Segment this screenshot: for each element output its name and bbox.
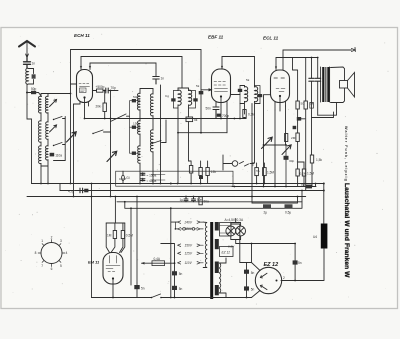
coil L3b: [46, 122, 48, 139]
svg-text:8: 8: [35, 251, 37, 255]
switch frame box: [54, 117, 66, 161]
svg-text:50: 50: [301, 102, 305, 106]
plate cap 5n lower: [244, 286, 249, 290]
osc padder lever: [111, 114, 130, 122]
electrolytic feed wires: [252, 197, 298, 204]
dial lamp 1: [226, 226, 236, 236]
heater winding label box EZ12: [220, 247, 234, 257]
svg-text:240V: 240V: [184, 220, 193, 224]
svg-text:220V: 220V: [184, 227, 193, 231]
svg-text:2M: 2M: [291, 136, 296, 140]
cap 4,7u on bus: [80, 188, 83, 193]
IF1 trim cap right: [193, 98, 197, 101]
osc switch S4: [152, 141, 166, 144]
svg-text:Gl: Gl: [126, 176, 129, 180]
svg-text:Cg: Cg: [165, 94, 169, 98]
volume pot arrow 2: [282, 145, 291, 155]
tube V4 EM11: [103, 253, 123, 285]
output transformer core: [322, 67, 324, 102]
bottom heater bus: [175, 297, 252, 299]
svg-text:50n: 50n: [197, 198, 203, 202]
cap 8u electrolytic: [306, 185, 312, 189]
bus y196.5: [27, 196, 306, 198]
resistor 0,5M grid: [93, 90, 97, 92]
svg-text:5n: 5n: [179, 272, 183, 276]
electrolytic 0,5u: [283, 202, 294, 204]
svg-text:1,5M: 1,5M: [267, 171, 274, 175]
svg-text:1: 1: [41, 239, 43, 243]
resistor 0,1M: [243, 110, 246, 118]
svg-text:1,5k: 1,5k: [316, 158, 322, 162]
trimmer 5k box: [186, 117, 193, 122]
resistor 0,5M: [121, 231, 124, 239]
AVC return line: [178, 119, 227, 133]
svg-text:50a: 50a: [204, 199, 210, 203]
selector feed wires: [171, 208, 178, 297]
bus y208.3: [125, 191, 302, 209]
wire from selector to fuse: [161, 244, 175, 272]
bus y183.5: [32, 183, 324, 185]
cap 5n selector upper: [172, 271, 177, 275]
svg-text:2: 2: [51, 236, 53, 240]
IF1 primary coil: [178, 90, 181, 105]
svg-text:700p: 700p: [222, 114, 229, 118]
speaker cone: [340, 81, 348, 89]
svg-text:A=4,5V, 0,3A: A=4,5V, 0,3A: [225, 218, 244, 222]
tube V5 EZ12: [255, 267, 281, 293]
capacitor pair at transformer: [309, 78, 314, 81]
lamp wires: [231, 219, 241, 244]
IF2 trim cap left: [238, 89, 242, 92]
osc switch S3: [93, 130, 111, 134]
coil L3a: [46, 96, 48, 113]
svg-text:70p: 70p: [111, 86, 117, 90]
IF2 trim cap right: [258, 94, 262, 97]
svg-text:Lauschatal W und Franken W: Lauschatal W und Franken W: [343, 183, 350, 278]
osc coil L4a: [138, 93, 140, 110]
tube V3 ECL11: [271, 70, 290, 103]
osc coil L5b tall: [150, 130, 153, 152]
node antenna junction: [26, 92, 28, 94]
trimmer cap 110a: [50, 153, 55, 157]
svg-text:4: 4: [66, 251, 68, 255]
svg-text:5k: 5k: [196, 84, 200, 88]
resistor Ra: [296, 101, 299, 109]
TA jack: [232, 161, 238, 167]
resistor 50a: [199, 197, 202, 205]
svg-text:5n: 5n: [298, 261, 302, 265]
svg-text:≈ 150a: ≈ 150a: [147, 173, 157, 177]
svg-text:3: 3: [60, 239, 62, 243]
svg-text:0,1M: 0,1M: [119, 177, 126, 181]
svg-text:1k: 1k: [310, 102, 314, 106]
bus ECL grid from IF2: [276, 58, 318, 70]
wire antenna down to bus: [27, 93, 32, 184]
winding blocks: [215, 222, 219, 231]
trimmer arrow L3a: [50, 99, 57, 106]
svg-text:5: 5: [60, 264, 62, 268]
svg-text:8μ: 8μ: [301, 182, 305, 186]
svg-text:4,7μ: 4,7μ: [68, 189, 74, 193]
svg-text:ECL 11: ECL 11: [263, 36, 279, 41]
svg-text:≈ 450a: ≈ 450a: [147, 179, 157, 183]
resistor Rd: [296, 169, 299, 176]
glow lamp box: [116, 171, 233, 186]
AVC grid cap box: [199, 91, 204, 94]
cap 1u: [184, 197, 188, 202]
capacitor 1n bus tap: [153, 77, 159, 85]
bus EBF plate to IF2: [222, 57, 255, 86]
V4 cathode wire to bus: [92, 280, 145, 298]
top bus C to 1n cap: [90, 63, 156, 77]
svg-text:12k: 12k: [211, 170, 217, 174]
resistor 1M: [113, 231, 116, 239]
coil L2b: [38, 121, 41, 142]
svg-text:5n: 5n: [251, 271, 255, 275]
IF2 secondary coil: [255, 87, 258, 102]
svg-text:150p: 150p: [133, 122, 140, 126]
svg-text:+500p: +500p: [96, 85, 105, 89]
EBF grid stub: [201, 89, 212, 91]
dropper resistor U4 dark bar: [321, 224, 328, 249]
IF1 secondary coil: [189, 90, 192, 105]
svg-text:1n: 1n: [32, 62, 36, 66]
svg-text:150V: 150V: [185, 243, 193, 247]
svg-text:1,5M: 1,5M: [307, 172, 314, 176]
tube V1 ECH11: [77, 70, 93, 103]
svg-text:0,4A: 0,4A: [154, 257, 161, 261]
svg-text:5k: 5k: [194, 118, 198, 122]
wire verticals to bus: [71, 84, 74, 197]
IF1 trim cap left: [171, 98, 175, 101]
mains switch: [145, 294, 175, 298]
svg-text:30p: 30p: [289, 159, 294, 163]
voltage selector contacts: [178, 221, 204, 264]
svg-text:50p: 50p: [31, 87, 37, 91]
EM11 top wires: [106, 197, 131, 286]
bus ECL plate to speaker terminal: [283, 48, 355, 71]
resistor Re 1,5M: [302, 169, 305, 176]
V1 pins: [81, 57, 90, 70]
V5 pin wires: [247, 244, 261, 298]
band switch S2: [54, 143, 66, 146]
speaker feed wires: [312, 58, 318, 118]
svg-text:F: F: [252, 164, 254, 168]
wire x137 from bus: [136, 197, 138, 284]
V2 pins: [216, 95, 240, 133]
coupling cap dark right: [297, 117, 301, 121]
IF2 primary coil: [245, 87, 248, 102]
capacitor 70p: [103, 90, 118, 92]
wire grid bus y118.5: [85, 118, 247, 120]
V3 pins: [275, 97, 286, 111]
svg-text:6: 6: [51, 267, 53, 271]
svg-text:5n: 5n: [141, 286, 145, 290]
bus y201.8: [117, 201, 302, 203]
svg-text:5n: 5n: [179, 287, 183, 291]
cap dark on resistor lead: [199, 176, 203, 179]
svg-text:1n: 1n: [161, 77, 165, 81]
wires IF2 secondary down: [252, 104, 255, 197]
wires under V3: [264, 106, 286, 187]
osc coil L4b: [138, 121, 140, 135]
svg-text:0,5M: 0,5M: [126, 234, 133, 238]
svg-text:7: 7: [41, 264, 43, 268]
wire y186.5: [232, 186, 316, 188]
trimmer cap on L1: [32, 74, 36, 78]
resistor Rb: [304, 101, 307, 109]
cap 5n HT: [293, 260, 298, 264]
resistor 20k: [103, 103, 106, 112]
svg-text:Walter Funk, Leipzig: Walter Funk, Leipzig: [344, 126, 348, 182]
svg-text:EM 11: EM 11: [88, 260, 100, 265]
cap 5n selector lower: [172, 286, 177, 290]
bus y190.5: [60, 190, 324, 192]
resistor 1,5M mid: [263, 168, 267, 176]
svg-text:2: 2: [283, 276, 285, 280]
tube V2 EBF11: [212, 69, 231, 103]
cap 5n at EM11: [134, 285, 139, 289]
cap 30p under V3: [284, 156, 289, 160]
speaker body: [331, 67, 345, 103]
capacitor 50p series: [27, 93, 42, 97]
osc coil L5a tall: [150, 94, 153, 116]
plate cap 5n upper: [244, 270, 249, 274]
band switch S1: [54, 117, 66, 120]
svg-text:1μ: 1μ: [180, 198, 184, 202]
resistor bank above bus: [189, 166, 192, 174]
tuning capacitor arrow C-tune2: [107, 151, 117, 161]
resistor 1M right: [310, 155, 313, 163]
osc coil L4c: [138, 146, 140, 163]
svg-text:50n: 50n: [206, 107, 212, 111]
feedback loop wires: [312, 103, 337, 187]
resistor mid: [285, 134, 288, 142]
coil L3c: [46, 146, 48, 160]
svg-text:5n: 5n: [251, 287, 255, 291]
cap pair dark: [293, 126, 297, 129]
padder caps left of L4: [132, 99, 136, 102]
svg-text:50p: 50p: [133, 95, 138, 99]
svg-text:8,5V: 8,5V: [228, 245, 235, 249]
top bus A (AVC): [71, 50, 202, 92]
svg-text:ECH 11: ECH 11: [74, 33, 90, 38]
scan speckle noise: [5, 34, 388, 305]
svg-text:5k: 5k: [246, 78, 250, 82]
fuse F box: [255, 168, 259, 176]
coil L2c: [39, 146, 41, 164]
antenna: [19, 41, 35, 47]
volume pot arrow 1: [262, 137, 273, 148]
socket viewing circle: [41, 243, 62, 264]
misc value labels: [119, 78, 314, 249]
capacitor 1n antenna: [24, 58, 31, 69]
box under transformer: [310, 103, 314, 109]
bus junction dots: [40, 183, 287, 210]
wires osc verticals: [140, 85, 166, 184]
HV secondary winding: [220, 223, 232, 237]
svg-text:110a: 110a: [55, 153, 62, 157]
tuning capacitor arrow C-tune1: [67, 132, 77, 142]
transformer core: [210, 222, 213, 299]
cap 50n below V2: [213, 107, 219, 119]
antenna coil L1: [26, 68, 29, 84]
svg-text:EZ 12: EZ 12: [222, 251, 231, 255]
svg-text:0,2M: 0,2M: [300, 172, 307, 176]
resistor Rc: [296, 133, 299, 142]
trimmer arrow L3b: [50, 125, 57, 132]
top bus B to IF1: [81, 57, 182, 89]
svg-text:125V: 125V: [185, 252, 193, 256]
fuse 0,4A: [142, 262, 175, 264]
svg-text:2μ: 2μ: [264, 211, 268, 215]
svg-text:EBF 11: EBF 11: [208, 35, 224, 40]
svg-text:110V: 110V: [185, 261, 193, 265]
selector plug link 220V: [183, 228, 186, 231]
dial lamp 2: [236, 226, 246, 236]
transformer primary winding: [205, 223, 206, 268]
svg-text:20k: 20k: [96, 105, 102, 109]
svg-text:0,5μ: 0,5μ: [285, 211, 291, 215]
cap 50n: [192, 197, 196, 202]
electrolytic 2u: [262, 202, 273, 204]
wire x91.5 long: [91, 184, 93, 298]
coil L2a: [39, 96, 41, 113]
heater winding: [220, 263, 221, 293]
svg-text:1M: 1M: [107, 234, 112, 238]
